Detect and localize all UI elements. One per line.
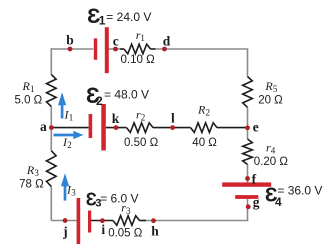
svg-text:= 48.0 V: = 48.0 V	[104, 87, 149, 101]
svg-text:5: 5	[273, 84, 278, 94]
wire middle: node a to battery E2	[51, 127, 88, 129]
svg-text:0.50 Ω: 0.50 Ω	[124, 137, 159, 149]
battery E2 short plate	[89, 114, 93, 138]
label R5 value 20 ohm	[258, 79, 283, 106]
svg-text:0.20 Ω: 0.20 Ω	[254, 156, 289, 168]
resistor R5 20 ohm	[243, 77, 253, 108]
node g dot	[246, 204, 251, 209]
svg-text:2: 2	[141, 113, 146, 123]
node e dot	[245, 125, 250, 130]
label r2 value 0.50 ohm	[124, 108, 159, 150]
svg-text:3: 3	[34, 168, 39, 178]
current arrow I2 (right)	[54, 131, 84, 139]
svg-text:1: 1	[99, 14, 106, 28]
svg-text:i: i	[101, 222, 105, 237]
node c dot	[113, 47, 118, 52]
svg-text:l: l	[171, 110, 175, 125]
resistor r3 0.05 ohm	[113, 216, 140, 226]
node f dot	[245, 176, 250, 181]
label current I1	[64, 107, 74, 122]
wire top-right: r1 to top-right corner	[156, 48, 247, 50]
label emf E3 = 6.0 V	[86, 190, 139, 210]
wire right rail: top corner to R5	[247, 48, 249, 76]
label R2 value 40 ohm	[192, 103, 217, 150]
svg-text:4: 4	[271, 146, 276, 156]
svg-text:e: e	[253, 120, 259, 135]
resistor r4 0.20 ohm	[243, 139, 253, 165]
svg-text:d: d	[163, 34, 171, 49]
svg-text:1: 1	[30, 84, 35, 94]
svg-text:= 36.0 V: = 36.0 V	[277, 183, 322, 197]
svg-text:1: 1	[69, 113, 74, 123]
wire left rail: top corner down to R1	[50, 48, 52, 74]
current arrow I1 (up)	[58, 92, 66, 118]
resistor r2 0.50 ohm	[127, 123, 154, 133]
svg-text:0.10 Ω: 0.10 Ω	[121, 54, 156, 66]
label emf E4 = 36.0 V	[265, 183, 323, 209]
svg-text:3: 3	[126, 206, 131, 216]
wire left rail: R1 to R3	[50, 107, 52, 151]
svg-text:2: 2	[206, 108, 211, 118]
node j dot	[63, 218, 68, 223]
wire right rail: R5 to node e	[247, 107, 249, 127]
svg-text:0.05 Ω: 0.05 Ω	[108, 227, 143, 239]
wire bottom: battery E3 to r3	[91, 220, 113, 222]
node k dot	[114, 125, 119, 130]
svg-text:2: 2	[96, 94, 103, 108]
svg-text:k: k	[112, 111, 120, 126]
battery E4 long plate	[222, 182, 271, 186]
wire middle: r2 to R2 (through node l)	[153, 127, 191, 129]
wire middle: battery E2 to r2	[106, 127, 127, 129]
label emf E1 = 24.0 V	[87, 4, 151, 28]
battery E3 short plate	[88, 211, 91, 233]
current arrow I3 (up)	[61, 173, 69, 200]
svg-text:a: a	[40, 119, 47, 134]
svg-text:= 24.0 V: = 24.0 V	[106, 10, 151, 24]
wire left rail: R3 to bottom corner	[50, 187, 52, 221]
svg-text:j: j	[62, 224, 68, 239]
battery E3 tall plate	[77, 198, 81, 244]
wire right rail: r4 to battery E4 long bar	[247, 165, 249, 183]
svg-text:f: f	[252, 171, 257, 186]
node i dot	[100, 218, 105, 223]
battery E2 tall plate	[101, 104, 106, 151]
svg-text:5.0 Ω: 5.0 Ω	[15, 94, 43, 106]
wire top-left: corner to battery E1	[51, 48, 93, 50]
node a dot	[49, 125, 54, 130]
svg-text:h: h	[151, 224, 159, 239]
resistor R3 78 ohm	[47, 151, 57, 187]
label current I2	[62, 135, 72, 150]
node l dot	[170, 125, 175, 130]
node d dot	[162, 47, 167, 52]
wire bottom: r3 to node h	[140, 220, 147, 222]
label r1 value 0.10 ohm	[121, 28, 156, 66]
svg-text:20 Ω: 20 Ω	[258, 95, 283, 107]
svg-text:78 Ω: 78 Ω	[19, 179, 44, 191]
svg-text:c: c	[113, 34, 119, 49]
wire bottom-left: corner to battery E3	[51, 220, 77, 222]
svg-text:3: 3	[71, 188, 76, 198]
node h dot	[151, 218, 156, 223]
label emf E2 = 48.0 V	[86, 83, 149, 108]
battery E1 short (negative) plate	[94, 38, 97, 59]
label current I3	[66, 183, 76, 198]
label R1 value 5.0 ohm	[15, 79, 43, 106]
wire middle: R2 to node e	[217, 127, 248, 129]
resistor R2 40 ohm	[191, 123, 218, 133]
wire right rail: battery E4 short bar to bottom corner	[247, 199, 249, 221]
svg-text:b: b	[66, 33, 74, 48]
wire right rail: node e to r4	[247, 128, 249, 139]
wire bottom-right: corner to r3 / node h	[146, 219, 248, 222]
svg-text:g: g	[253, 195, 260, 210]
battery E4 short plate	[235, 195, 258, 199]
resistor R1 5.0 ohm	[47, 75, 57, 107]
svg-text:= 6.0 V: = 6.0 V	[100, 191, 138, 205]
svg-text:1: 1	[140, 33, 145, 43]
label r4 value 0.20 ohm	[254, 141, 289, 168]
label r3 value 0.05 ohm	[108, 201, 143, 240]
wire top: battery E1 to r1 lead	[109, 48, 121, 50]
battery E1 tall (positive) plate	[105, 27, 109, 73]
node b dot	[68, 47, 73, 52]
resistor r1 0.10 ohm with leads	[120, 48, 124, 50]
svg-text:40 Ω: 40 Ω	[192, 137, 217, 149]
label R3 value 78 ohm	[19, 163, 44, 190]
svg-text:2: 2	[67, 140, 72, 150]
